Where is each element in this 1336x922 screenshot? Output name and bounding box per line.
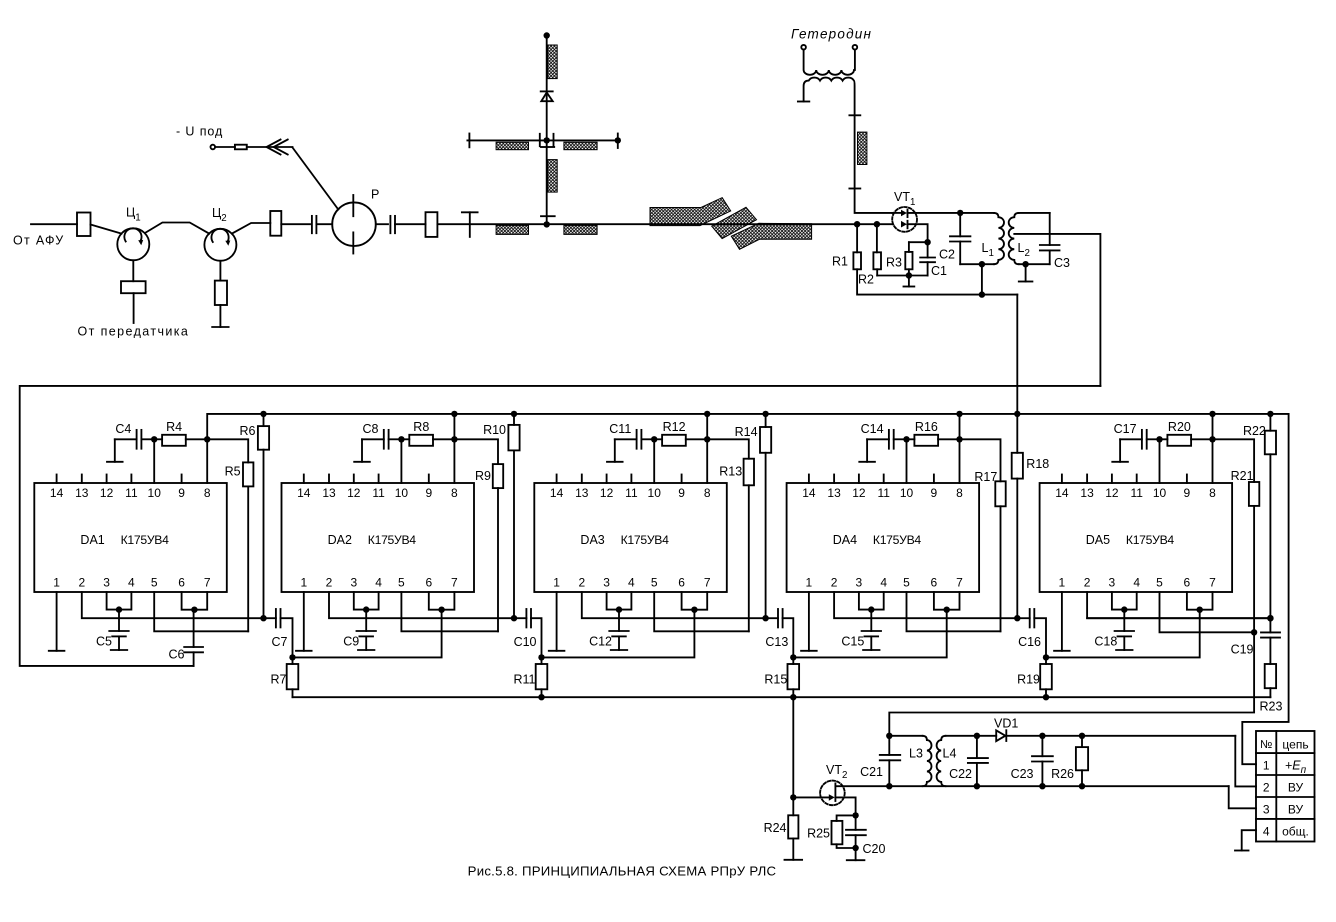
wire: DA3 pin2 output line [582,592,766,618]
wire: R2/R3/C1 bottom bar [877,275,927,277]
DA4 pin1 ground [808,592,810,651]
twisted waveguide section middle [712,207,757,238]
wire: DA2 pin2 output line [329,592,514,618]
waveguide section (rect) after P [426,212,438,237]
junction dot VT2 source node [852,812,858,818]
junction dot pin8 node DA4 [956,436,962,442]
matched load resistor below Ц2 [215,281,227,305]
svg-text:10: 10 [900,486,914,500]
svg-text:4: 4 [128,576,135,590]
resistor R11 [541,657,543,664]
resistor R15 [792,657,794,664]
wire: L2 tank bottom bar [1019,263,1050,265]
inductor L4 [937,736,946,786]
svg-text:7: 7 [204,576,211,590]
wire: VD1 to C23/R26 [1006,735,1235,737]
resistor R13 [707,439,749,458]
svg-text:4: 4 [375,576,382,590]
svg-text:R6: R6 [240,424,256,438]
DA1 top pin stubs [56,475,58,484]
resistor R4 [154,438,162,440]
resistor R5 [207,439,248,462]
svg-text:C9: C9 [343,635,359,649]
DA2 pins 3,4 join [354,592,379,610]
capacitor C15 (pins 3,4 bypass) [870,610,872,631]
resistor R7 [292,657,294,664]
ground below C20 [855,848,857,860]
svg-text:14: 14 [297,486,311,500]
hatched slug left cross arm [496,142,528,150]
resistor R8 [401,438,409,440]
wire: bias node to R3 [909,241,928,243]
junction dot pin2 line / load resistor R10 [511,615,517,621]
T-stub on main waveguide [462,211,478,213]
wire: slant into circulator Ц1 [91,225,122,234]
DA4 pins 6,7 join [934,592,960,610]
svg-text:C12: C12 [589,635,612,649]
junction dot R25/C20 bottom [852,845,858,851]
wire: DA5 pin2 output line [1087,592,1270,618]
ground bar left end of secondary [798,101,809,103]
capacitor C21 [888,736,890,755]
svg-text:C23: C23 [1011,767,1034,781]
svg-text:4: 4 [1263,824,1270,838]
svg-text:№: № [1260,739,1272,751]
wire: pin8 riser DA1 [206,439,208,483]
hatched slug on main line right of arm [564,225,597,234]
svg-text:R17: R17 [974,470,997,484]
svg-text:R20: R20 [1168,420,1191,434]
junction dot pins3-4 DA3 [616,606,622,612]
junction dot pins6-7 DA3 [691,607,697,613]
wire: VT2 gate feed from AGC bus [792,697,794,797]
svg-text:R12: R12 [663,420,686,434]
svg-text:1: 1 [1263,759,1270,773]
svg-text:11: 11 [372,486,385,500]
wire: into mixer circle [316,223,332,225]
capacitor C1 [927,242,929,257]
svg-text:7: 7 [1209,576,1216,590]
svg-text:R11: R11 [513,673,535,687]
svg-text:R23: R23 [1260,700,1283,714]
svg-text:8: 8 [956,486,963,500]
junction dot R3 ground node [906,272,912,278]
svg-text:9: 9 [678,486,685,500]
op-amp DA5 K175УВ4 body [1040,483,1233,592]
svg-text:6: 6 [931,576,938,590]
svg-text:R26: R26 [1051,767,1074,781]
DA5 pins 6,7 join [1187,592,1213,610]
wire: VT1 upper output to L1 tank [908,212,961,214]
svg-text:R19: R19 [1017,673,1040,687]
svg-text:C2: C2 [939,248,955,262]
svg-text:12: 12 [1105,486,1119,500]
svg-text:14: 14 [50,486,64,500]
junction dot bus / pin8 DA3 [704,411,710,417]
svg-text:C21: C21 [860,765,883,779]
wire: pin8 node to supply bus DA3 [706,414,708,439]
svg-text:общ.: общ. [1282,824,1309,838]
wire: DA1 pin5 feedback line [154,592,248,631]
wire: DA5 pin5 feedback line [1160,592,1255,632]
VT1 upper gate line from heterodyne [892,212,901,214]
junction dot tank bottom [979,261,985,267]
wire: connector pin 4 to ground [1242,830,1256,850]
junction dot pin2 line / load resistor R14 [762,615,768,621]
terminal circle -Uпод [211,145,216,150]
junction dot pin2 line / load resistor R6 [260,615,266,621]
svg-text:2: 2 [78,576,85,590]
svg-text:3: 3 [1109,576,1116,590]
wire: R21 node down to detector line [889,632,1254,736]
wire: tank bottom to bias rail [981,264,983,294]
svg-text:C13: C13 [765,635,788,649]
junction dot coupling node R19 [1043,654,1049,660]
junction dot bus / pin8 DA2 [451,411,457,417]
junction dot bus / R14 [762,411,768,417]
hatched slug on heterodyne feed [858,132,867,164]
svg-text:C15: C15 [841,635,864,649]
waveguide section (rect) at antenna input [77,213,91,237]
svg-text:12: 12 [347,486,361,500]
svg-text:13: 13 [75,486,89,500]
svg-text:1: 1 [53,576,60,590]
svg-text:R15: R15 [764,673,787,687]
capacitor C5 (pins 3,4 bypass) [118,610,120,631]
wire: pin10 riser DA2 [400,439,402,483]
junction dot pins6-7 DA5 [1197,607,1203,613]
wire: L4 top to diode VD1 [977,735,996,737]
DA1 pin1 ground [56,592,58,651]
svg-text:DA4: DA4 [833,533,857,547]
vertical waveguide arm [546,36,548,225]
capacitor C17 [1120,438,1142,440]
junction dot pin2 line / load resistor R18 [1014,615,1020,621]
wire: antenna input line [31,223,77,225]
svg-text:R3: R3 [886,256,902,270]
svg-text:R18: R18 [1026,457,1049,471]
junction dot main line / vertical arm [544,221,550,227]
capacitor C10 (interstage coupling) [514,617,526,619]
junction dot DA5 output node [1267,615,1273,621]
junction dot pin10 node DA5 [1156,436,1162,442]
junction dot bus / R18 [1014,411,1020,417]
svg-text:Рис.5.8. ПРИНЦИПИАЛЬНАЯ СХЕМА: Рис.5.8. ПРИНЦИПИАЛЬНАЯ СХЕМА РПрУ РЛС [468,864,777,879]
wire: coupling node to DA4 input pins 6,7 [793,610,946,658]
horizontal cross arm [467,139,617,141]
svg-text:C7: C7 [272,635,288,649]
junction dot pin10 node DA2 [398,436,404,442]
wire: P output [376,223,388,225]
svg-text:C8: C8 [363,422,379,436]
wire: VT2 drain to tank [835,785,889,787]
svg-text:DA2: DA2 [328,533,352,547]
junction dot bus / pin8 DA5 [1209,411,1215,417]
DA3 top pin stubs [556,475,558,484]
twisted waveguide section left [650,198,731,226]
svg-text:8: 8 [1209,486,1216,500]
wire: L2 tap to IF strip [1014,234,1100,386]
svg-text:7: 7 [704,576,711,590]
wire: pin8 riser DA4 [959,439,961,483]
wire: rect to coupling gap [281,223,310,225]
capacitor C16 (interstage coupling) [1017,617,1029,619]
resistor R10 [513,414,515,425]
svg-text:R21: R21 [1231,469,1254,483]
junction dot R19 bottom [1043,694,1049,700]
DA2 top pin stubs [303,475,305,484]
junction dot R26 bottom [1079,783,1085,789]
svg-text:VD1: VD1 [994,717,1018,731]
coupling gap (double bars) left of mixer P [311,216,313,233]
svg-text:7: 7 [451,576,458,590]
capacitor C19 [1269,618,1271,632]
svg-text:7: 7 [956,576,963,590]
svg-text:C10: C10 [514,635,537,649]
junction dot VT2 gate node [790,794,796,800]
DA1 pins 3,4 join [107,592,132,610]
resistor R19 [1045,657,1047,664]
wire: pin8 node to supply bus DA4 [959,414,961,439]
resistor R1 [856,224,858,252]
svg-text:C6: C6 [169,648,185,662]
svg-text:2: 2 [1084,576,1091,590]
capacitor C13 (interstage coupling) [766,617,778,619]
wire: pin8 riser DA2 [453,439,455,483]
svg-text:14: 14 [1055,486,1069,500]
junction dot bus / R22 [1267,411,1273,417]
op-amp DA4 K175УВ4 body [787,483,980,592]
svg-text:9: 9 [178,486,185,500]
DA2 pin1 ground [303,592,305,651]
resistor R17 [960,439,1001,481]
svg-text:цепь: цепь [1282,738,1308,752]
junction dot pin8 node DA1 [204,436,210,442]
svg-text:3: 3 [603,576,610,590]
svg-text:R10: R10 [483,423,506,437]
wire: pin10 riser DA5 [1159,439,1161,483]
capacitor C14 [867,438,889,440]
wire: pin10 riser DA1 [153,439,155,483]
coupling gap (double bars) right of P [389,216,391,233]
svg-text:2: 2 [326,576,333,590]
svg-text:9: 9 [1184,486,1191,500]
heterodyne transformer secondary winding [804,78,855,116]
hatched slug right cross arm [564,142,597,150]
svg-text:5: 5 [151,576,158,590]
attenuator rect in bias feed [235,145,247,150]
wire: lower AGC bus [293,696,1271,698]
wire: VT1 lower lead to bias network [908,224,928,242]
svg-text:12: 12 [852,486,866,500]
junction dot C23 bottom [1039,783,1045,789]
junction dot pin10 node DA1 [151,436,157,442]
svg-text:L4: L4 [943,747,957,761]
capacitor C23 [1041,736,1043,756]
DA5 pin1 ground [1061,592,1063,651]
waveguide section (rect) below Ц1 [121,281,146,293]
op-amp DA3 K175УВ4 body [534,483,727,592]
VT2 gate line and arrow [793,796,829,798]
svg-text:R1: R1 [832,255,848,269]
resistor R9 [454,439,498,464]
wire: to waveguide rect [395,223,426,225]
svg-text:4: 4 [880,576,887,590]
junction dot pin8 node DA5 [1209,436,1215,442]
resistor R2 [876,224,878,252]
svg-text:5: 5 [903,576,910,590]
svg-text:К175УВ4: К175УВ4 [121,533,170,547]
resistor R18 [1016,414,1018,453]
svg-text:12: 12 [100,486,114,500]
svg-text:ВУ: ВУ [1288,802,1304,816]
svg-text:C19: C19 [1231,643,1254,657]
wire: Ц2 to mixer line [232,223,270,234]
VT2 electrode bar [834,783,836,801]
chevron marks on bias feed [267,140,281,155]
wire: main waveguide run to mixer diode VT1 [437,223,892,225]
svg-text:От АФУ: От АФУ [13,234,65,248]
svg-text:10: 10 [148,486,162,500]
svg-text:C14: C14 [861,422,884,436]
svg-text:R7: R7 [271,673,287,687]
inductor L2 [1009,213,1019,264]
svg-text:К175УВ4: К175УВ4 [368,533,417,547]
junction dot pins3-4 DA4 [868,606,874,612]
wire: IF input feed across top [20,386,1101,666]
wire: pin8 node to supply bus DA5 [1212,414,1214,439]
svg-text:8: 8 [451,486,458,500]
junction dot cross center [544,137,550,143]
DA1 pins 6,7 join [182,592,208,610]
svg-text:К175УВ4: К175УВ4 [1126,533,1175,547]
capacitor C11 [615,438,637,440]
wire: pin10 riser DA3 [653,439,655,483]
wire: R1 bottom to bias rail [857,269,1017,294]
junction dot bus / pin8 DA4 [956,411,962,417]
svg-text:11: 11 [1130,486,1143,500]
resistor R3 [908,242,910,252]
junction dot R15 bottom / VT2 gate feed [790,694,796,700]
wire: coupling node to DA2 input pins 6,7 [293,610,442,658]
svg-text:К175УВ4: К175УВ4 [621,533,670,547]
resistor R22 [1269,414,1271,431]
capacitor C20 [855,815,857,829]
svg-text:R5: R5 [225,465,241,479]
junction dot C22 top [974,733,980,739]
hatched slug on main line left of arm [496,225,528,234]
svg-text:C18: C18 [1094,635,1117,649]
wire: top supply bus of IF strip [207,414,1288,439]
ground below Ц2 load [219,305,221,327]
junction dot pins3-4 DA1 [116,606,122,612]
svg-text:3: 3 [103,576,110,590]
svg-text:R4: R4 [166,420,182,434]
detector diode in vertical arm [541,90,553,92]
inductor L1 [960,212,994,214]
wire: pin8 node to supply bus DA2 [453,414,455,439]
svg-text:R14: R14 [735,425,758,439]
svg-text:11: 11 [877,486,890,500]
svg-text:C17: C17 [1114,422,1137,436]
wire: DA1 pin2 output line [82,592,264,618]
svg-text:13: 13 [575,486,589,500]
svg-text:C5: C5 [96,635,112,649]
wire: to От передатчика [133,293,135,323]
resistor R23 [1265,664,1276,688]
svg-text:Гетеродин: Гетеродин [791,27,872,42]
junction dot coupling node R7 [289,654,295,660]
circulator Ц1 [117,228,149,260]
junction dot pin8 node DA3 [704,436,710,442]
svg-text:DA1: DA1 [80,533,104,547]
svg-text:К175УВ4: К175УВ4 [873,533,922,547]
svg-text:6: 6 [678,576,685,590]
wire: bias rail down to R18 column [1016,295,1018,414]
svg-text:12: 12 [600,486,614,500]
dot and tick right end of cross arm [615,137,621,143]
wire: VT2 source lead [835,797,855,815]
junction dot coupling node R15 [790,654,796,660]
wire: bias feed to chevrons [247,146,293,148]
tick on vertical arm above main line [541,215,555,217]
svg-text:10: 10 [648,486,662,500]
capacitor C3 [1049,213,1051,245]
DA4 top pin stubs [808,475,810,484]
svg-text:2: 2 [831,576,838,590]
junction dot R11 bottom [538,694,544,700]
svg-text:C16: C16 [1018,635,1041,649]
tick on heterodyne feed lower [849,188,860,190]
VT1 lower gate line from waveguide [901,221,907,228]
resistor R20 [1160,438,1168,440]
terminal dot top of vertical arm [544,32,550,38]
junction dot pins6-7 DA4 [944,607,950,613]
svg-text:R13: R13 [719,464,742,478]
svg-text:1: 1 [300,576,307,590]
terminal circles heterodyne input [801,45,806,50]
DA3 pins 6,7 join [682,592,708,610]
svg-text:11: 11 [125,486,138,500]
wire: L1 tank bottom bar [960,263,994,265]
svg-text:L3: L3 [909,747,923,761]
svg-text:13: 13 [1080,486,1094,500]
inductor L3 [889,735,922,737]
svg-text:R2: R2 [858,273,874,287]
svg-text:2: 2 [1263,781,1270,795]
junction dot L3 tank top [886,733,892,739]
svg-text:10: 10 [395,486,409,500]
junction dot L1 top node [957,210,963,216]
op-amp DA2 K175УВ4 body [282,483,475,592]
capacitor C12 (pins 3,4 bypass) [618,610,620,631]
svg-text:1: 1 [1059,576,1066,590]
svg-text:R9: R9 [475,469,491,483]
wire: DA2 pin5 feedback line [401,592,498,631]
resistor R26 [1081,736,1083,747]
junction dot pins6-7 DA1 [191,607,197,613]
wire: DA5 pin2 line to R22/C19 node [1087,617,1270,619]
circulator Ц2 [204,229,236,261]
svg-text:C4: C4 [115,422,131,436]
svg-text:C3: C3 [1054,256,1070,270]
DA5 top pin stubs [1061,475,1063,484]
wire: DA3 pin5 feedback line [654,592,749,631]
DA5 pins 3,4 join [1112,592,1137,610]
junction dot DA5 pin5 / R21 node [1251,629,1257,635]
svg-text:DA5: DA5 [1086,533,1110,547]
svg-text:9: 9 [425,486,432,500]
